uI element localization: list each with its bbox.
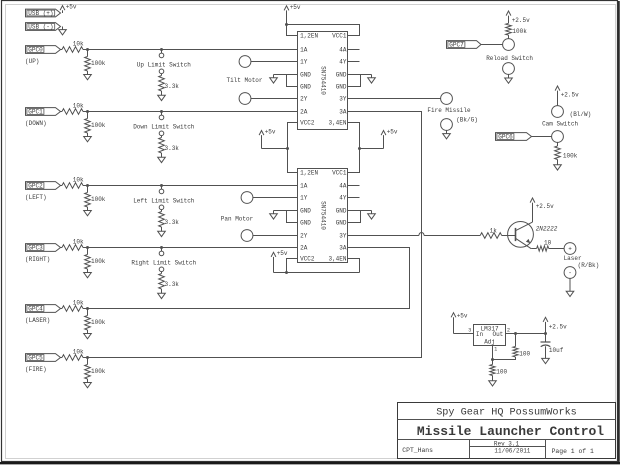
svg-text:VCC1: VCC1 [332, 169, 347, 176]
svg-text:+2.5v: +2.5v [549, 324, 567, 331]
wire U2 VCC2 to bottom rail [287, 259, 298, 273]
ground below Down Limit Switch [161, 153, 163, 157]
svg-text:+2.5v: +2.5v [561, 92, 579, 99]
svg-text:+5v: +5v [290, 4, 301, 11]
svg-text:100k: 100k [563, 153, 578, 160]
svg-text:Cam Switch: Cam Switch [542, 120, 578, 127]
svg-text:Left Limit Switch: Left Limit Switch [133, 197, 195, 204]
svg-text:2: 2 [507, 328, 510, 334]
ground below Up Limit Switch [161, 91, 163, 95]
svg-text:GPC6: GPC6 [498, 134, 513, 141]
svg-text:(LASER): (LASER) [25, 317, 50, 324]
node GPC3 junction [86, 246, 89, 249]
wire Tilt Motor pin2 to U1 2Y [251, 98, 298, 100]
wire net GPC1/DOWN to U1 pin 2A [88, 111, 298, 113]
stub U2 pin 4A [348, 185, 360, 187]
resistor 100k pulldown on GPC2 [87, 186, 89, 193]
wire U2 right GND bracket [348, 211, 361, 223]
node junction at Left Limit Switch [160, 184, 163, 187]
svg-text:100k: 100k [91, 196, 106, 203]
connector Fire Missile pin 1 [441, 93, 453, 105]
svg-text:VCC2: VCC2 [300, 119, 315, 126]
wire GPC1 resistor to junction [83, 111, 88, 113]
svg-text:2A: 2A [300, 108, 308, 115]
svg-text:3Y: 3Y [339, 232, 347, 239]
wire U2 left GND bracket [274, 210, 298, 212]
wire net GPC2/LEFT to U2 pin 1A [88, 185, 298, 187]
connector Reload Switch pin 2 [503, 63, 515, 75]
stub U2 pin 4Y [348, 197, 360, 199]
svg-text:(DOWN): (DOWN) [25, 120, 47, 127]
svg-text:+: + [568, 246, 572, 253]
wire GPC4 to series resistor [61, 308, 63, 310]
node +5v top rail junction [285, 23, 288, 26]
ground at U2 right GND [371, 211, 373, 214]
svg-text:3Y: 3Y [339, 95, 347, 102]
svg-text:Out: Out [492, 331, 503, 338]
wire Q1 emitter to 10 ohm resistor [531, 248, 536, 250]
connector Right Limit Switch pin 1 [161, 248, 163, 252]
ground below Left Limit Switch [161, 227, 163, 231]
svg-text:Tilt Motor: Tilt Motor [226, 77, 262, 84]
node GPC2 junction [86, 184, 89, 187]
wire GPC2 resistor to junction [83, 185, 88, 187]
connector Tilt Motor pin 1 [239, 56, 251, 68]
svg-text:GPC5: GPC5 [28, 355, 43, 362]
svg-text:3,4EN: 3,4EN [328, 255, 346, 262]
svg-text:4A: 4A [339, 46, 347, 53]
svg-text:GND: GND [336, 71, 347, 78]
ground below Adj resistor [492, 376, 494, 381]
svg-text:Rev 3.1: Rev 3.1 [494, 440, 520, 447]
ground below Fire Missile [446, 130, 448, 133]
resistor 10k on GPC2 [62, 183, 83, 189]
node mid-left rail junction [286, 147, 289, 150]
connector Right Limit Switch pin 2 [159, 267, 164, 272]
svg-text:+2.5v: +2.5v [512, 17, 530, 24]
resistor 100 lower [490, 365, 495, 376]
connector Left Limit Switch pin 2 [159, 205, 164, 210]
svg-text:1A: 1A [300, 182, 308, 189]
power +5v at USB (+) [62, 7, 64, 13]
connector GPC1 (DOWN) [26, 108, 61, 116]
connector Laser pin 2 (-) [564, 267, 576, 279]
connector GPC0 (UP) [26, 46, 61, 54]
resistor 100 feedback upper [515, 334, 517, 347]
wire U1 right GND bracket [348, 75, 361, 87]
power +2.5v at Cam Switch [557, 87, 559, 106]
wire net GPC5/FIRE to U1 pin 3A [88, 112, 422, 358]
svg-text:GND: GND [300, 83, 311, 90]
connector GPC6 [496, 133, 532, 141]
wire Tilt Motor pin1 to U1 1Y [251, 61, 298, 63]
node GPC5 junction [86, 356, 89, 359]
node bottom rail junction [285, 271, 288, 274]
svg-text:+5v: +5v [457, 313, 468, 320]
wire GPC4 resistor to junction [83, 308, 88, 310]
connector Pan Motor pin 2 [241, 230, 253, 242]
resistor 100k pulldown on GPC0 [87, 50, 89, 57]
svg-text:100k: 100k [91, 258, 106, 265]
connector Up Limit Switch pin 1 [161, 50, 163, 54]
svg-text:GND: GND [336, 83, 347, 90]
wire +5v to U3 In [454, 333, 474, 335]
svg-text:GPC3: GPC3 [28, 245, 43, 252]
power +2.5v at Reload Switch [508, 12, 510, 23]
resistor 3.3k at Right Limit Switch [161, 272, 163, 274]
wire U1 VCC2 / U2 1,2EN to mid-left rail [288, 123, 298, 173]
node junction at Up Limit Switch [160, 48, 163, 51]
svg-text:GND: GND [336, 219, 347, 226]
svg-text:1Y: 1Y [300, 194, 308, 201]
svg-text:2A: 2A [300, 244, 308, 251]
svg-text:1,2EN: 1,2EN [300, 169, 318, 176]
svg-text:VCC2: VCC2 [300, 255, 315, 262]
svg-text:+2.5v: +2.5v [536, 203, 554, 210]
ground at U1 left GND [273, 75, 275, 78]
transistor Q1 2N2222 [508, 222, 534, 248]
power +2.5v at Q1 collector [532, 199, 534, 222]
resistor 100k pulldown on GPC5 [87, 358, 89, 365]
svg-text:3.3k: 3.3k [165, 145, 180, 152]
resistor 100k pulldown at Cam Switch [557, 142, 559, 146]
power +5v mid-left rail [261, 132, 263, 149]
ground at USB (-) [62, 27, 64, 30]
connector GPC5 (FIRE) [26, 354, 61, 362]
svg-text:4Y: 4Y [339, 58, 347, 65]
wire U1 left GND bracket [274, 74, 298, 76]
svg-text:(LEFT): (LEFT) [25, 194, 47, 201]
svg-text:100k: 100k [91, 60, 106, 67]
wire 10 ohm to Laser pin 1 [549, 248, 564, 250]
ground below Right Limit Switch [161, 289, 163, 293]
power +5v at U3 input [453, 314, 455, 334]
svg-text:3.3k: 3.3k [165, 219, 180, 226]
ground below Cam Switch [557, 160, 559, 165]
node junction at Right Limit Switch [160, 246, 163, 249]
resistor 10k on GPC4 [62, 306, 83, 312]
wire 1k to Q1 base [502, 235, 516, 237]
svg-text:VCC1: VCC1 [332, 32, 347, 39]
svg-text:10k: 10k [73, 238, 84, 245]
svg-text:GPC1: GPC1 [28, 109, 43, 116]
svg-text:10k: 10k [73, 40, 84, 47]
resistor 10k on GPC5 [62, 355, 83, 361]
svg-text:+5v: +5v [66, 4, 77, 11]
wire net GPC3/RIGHT to U2 pin 2A [88, 247, 298, 249]
svg-text:-: - [568, 270, 572, 277]
wire GPC0 resistor to junction [83, 49, 88, 51]
power +5v above U1 [286, 7, 288, 25]
node junction at Down Limit Switch [160, 110, 163, 113]
power +2.5v at U3 output [545, 318, 547, 333]
svg-text:100k: 100k [91, 368, 106, 375]
connector Reload Switch pin 1 [503, 39, 515, 51]
ground below GPC4 pulldown [87, 330, 89, 334]
resistor 1k base resistor [480, 233, 502, 239]
svg-text:(Bk/G): (Bk/G) [456, 117, 478, 124]
svg-text:Page 1 of 1: Page 1 of 1 [552, 448, 594, 455]
wire GPC2 to series resistor [61, 185, 63, 187]
svg-text:1A: 1A [300, 46, 308, 53]
node mid-right rail junction [358, 147, 361, 150]
connector Down Limit Switch pin 1 [161, 112, 163, 116]
resistor 100k pulldown on GPC1 [87, 112, 89, 119]
ground below capacitor [545, 357, 547, 359]
svg-text:4Y: 4Y [339, 194, 347, 201]
svg-text:GND: GND [300, 207, 311, 214]
ground below GPC2 pulldown [87, 207, 89, 211]
capacitor 10uf [545, 334, 547, 343]
svg-text:10k: 10k [73, 102, 84, 109]
wire U3 Out to +2.5v node [506, 333, 546, 335]
svg-text:3.3k: 3.3k [165, 83, 180, 90]
svg-text:4A: 4A [339, 182, 347, 189]
wire U1 3,4EN / U2 VCC1 to mid-right rail [348, 123, 360, 173]
resistor 10k on GPC1 [62, 109, 83, 115]
wire GPC3 to series resistor [61, 247, 63, 249]
svg-text:100k: 100k [512, 28, 527, 35]
svg-text:Missile Launcher Control: Missile Launcher Control [417, 424, 604, 439]
resistor 100k pulldown on GPC4 [87, 309, 89, 316]
svg-text:Spy Gear HQ PossumWorks: Spy Gear HQ PossumWorks [436, 406, 577, 418]
ground below GPC0 pulldown [87, 71, 89, 75]
svg-text:Reload Switch: Reload Switch [486, 55, 533, 62]
svg-text:3.3k: 3.3k [165, 281, 180, 288]
node GPC1 junction [86, 110, 89, 113]
node GPC0 junction [86, 48, 89, 51]
stub U1 pin 4Y [348, 61, 360, 63]
svg-text:GPC7: GPC7 [449, 42, 464, 49]
wire bottom +5v rail [274, 272, 360, 274]
wire net GPC4/LASER to U2 pin 3A [88, 248, 410, 309]
svg-text:2Y: 2Y [300, 232, 308, 239]
svg-text:1Y: 1Y [300, 58, 308, 65]
svg-text:10k: 10k [73, 348, 84, 355]
connector USB (+) [26, 9, 61, 17]
ground at U1 right GND [371, 75, 373, 78]
wire mid-left +5v rail [262, 148, 288, 150]
wire Pan Motor pin1 to U2 1Y [253, 197, 298, 199]
svg-text:GPC4: GPC4 [28, 306, 43, 313]
node Adj junction [491, 358, 494, 361]
resistor 100k pulldown on GPC3 [87, 248, 89, 255]
power +5v bottom rail [273, 253, 275, 272]
resistor 3.3k at Up Limit Switch [161, 74, 163, 76]
connector Pan Motor pin 1 [241, 192, 253, 204]
svg-text:1k: 1k [490, 227, 498, 234]
resistor 10 ohm [537, 246, 549, 251]
svg-text:Laser: Laser [564, 255, 582, 262]
svg-text:(FIRE): (FIRE) [25, 366, 47, 373]
ground below GPC1 pulldown [87, 133, 89, 137]
connector USB (-) [26, 23, 61, 31]
connector Tilt Motor pin 2 [239, 93, 251, 105]
svg-text:CPT_Hans: CPT_Hans [402, 447, 433, 454]
connector GPC2 (LEFT) [26, 182, 61, 190]
wire GPC5 to series resistor [61, 357, 63, 359]
svg-text:+5v: +5v [265, 128, 276, 135]
node Out junction at capacitor [544, 332, 547, 335]
svg-text:GPC0: GPC0 [28, 47, 43, 54]
connector Laser pin 1 (+) [564, 243, 576, 255]
wire GPC0 to series resistor [61, 49, 63, 51]
wire U1 3Y to Fire Missile [348, 98, 441, 100]
svg-text:(Bl/W): (Bl/W) [570, 111, 592, 118]
svg-text:(RIGHT): (RIGHT) [25, 256, 50, 263]
wire GPC7 to Reload Switch pin 1 [481, 44, 503, 46]
svg-text:GND: GND [300, 71, 311, 78]
svg-text:+5v: +5v [277, 250, 288, 257]
svg-text:Fire Missile: Fire Missile [427, 107, 471, 114]
svg-text:10uf: 10uf [549, 347, 564, 354]
svg-text:Pan Motor: Pan Motor [221, 216, 254, 223]
svg-text:Down Limit Switch: Down Limit Switch [133, 123, 195, 130]
power +5v mid-right rail [383, 132, 385, 149]
svg-text:Adj: Adj [484, 338, 495, 345]
wire Pan Motor pin2 to U2 2Y [253, 235, 298, 237]
regulator U3 LM317 body [474, 325, 506, 346]
node Out junction at feedback resistor [514, 332, 517, 335]
svg-text:11/06/2011: 11/06/2011 [494, 447, 530, 454]
svg-text:10k: 10k [73, 299, 84, 306]
svg-text:SN754410: SN754410 [320, 201, 327, 230]
svg-text:(UP): (UP) [25, 58, 39, 65]
svg-text:100k: 100k [91, 122, 106, 129]
stub U1 pin 4A [348, 49, 360, 51]
wire feedback resistor to Adj node [493, 357, 516, 360]
wire GPC5 resistor to junction [83, 357, 88, 359]
wire GPC1 to series resistor [61, 111, 63, 113]
motor driver U2 SN754410 body [298, 169, 348, 263]
connector Left Limit Switch pin 1 [161, 186, 163, 190]
svg-text:SN754410: SN754410 [320, 66, 327, 95]
resistor 3.3k at Down Limit Switch [161, 136, 163, 138]
wire U2 3,4EN to bottom rail [348, 259, 360, 273]
connector GPC4 (LASER) [26, 305, 61, 313]
connector Cam Switch pin 1 (Bl/W) [552, 106, 564, 118]
connector GPC3 (RIGHT) [26, 244, 61, 252]
resistor 100k pullup at Reload Switch [508, 35, 510, 39]
wire mid-right +5v rail [360, 148, 384, 150]
svg-text:2Y: 2Y [300, 95, 308, 102]
svg-text:3: 3 [468, 328, 471, 334]
svg-text:2N2222: 2N2222 [536, 225, 558, 232]
ground below GPC5 pulldown [87, 379, 89, 383]
title block frame [398, 403, 616, 459]
wire U2 3Y to base resistor with hop over FIRE net [348, 235, 419, 237]
svg-text:GND: GND [336, 207, 347, 214]
svg-text:Up Limit Switch: Up Limit Switch [137, 61, 191, 68]
wire net GPC0/UP to U1 pin 1A [88, 49, 298, 51]
ground below GPC3 pulldown [87, 269, 89, 273]
resistor 10k on GPC3 [62, 245, 83, 251]
svg-text:3A: 3A [339, 244, 347, 251]
ground below Reload Switch [508, 74, 510, 78]
svg-text:(R/Bk): (R/Bk) [578, 262, 600, 269]
svg-text:10: 10 [544, 240, 552, 247]
svg-text:3,4EN: 3,4EN [328, 119, 346, 126]
connector Up Limit Switch pin 2 [159, 69, 164, 74]
wire capacitor to ground [545, 346, 547, 358]
svg-text:1: 1 [494, 347, 497, 353]
node GPC4 junction [86, 307, 89, 310]
svg-text:100: 100 [496, 369, 507, 376]
wire GPC3 resistor to junction [83, 247, 88, 249]
ground below Laser [569, 278, 571, 291]
connector Fire Missile pin 2 [441, 119, 453, 131]
motor driver U1 SN754410 body [298, 32, 348, 130]
resistor 3.3k at Left Limit Switch [161, 210, 163, 212]
connector Down Limit Switch pin 2 [159, 131, 164, 136]
svg-text:+5v: +5v [387, 128, 398, 135]
connector Cam Switch pin 2 [552, 131, 564, 143]
svg-text:GPC2: GPC2 [28, 183, 43, 190]
wire U3 Adj down [492, 346, 494, 365]
ground at U2 left GND [273, 211, 275, 214]
svg-text:USB (-): USB (-) [28, 24, 53, 31]
svg-text:100k: 100k [91, 319, 106, 326]
wire +5v top rail to U1 1,2EN [287, 25, 298, 36]
svg-text:10k: 10k [73, 176, 84, 183]
svg-text:3A: 3A [339, 108, 347, 115]
svg-text:Right Limit Switch: Right Limit Switch [131, 259, 196, 266]
connector GPC7 [447, 41, 482, 49]
svg-text:1,2EN: 1,2EN [300, 32, 318, 39]
wire GPC6 to Cam Switch pin 2 [532, 136, 552, 138]
svg-text:GND: GND [300, 219, 311, 226]
svg-text:In: In [476, 331, 484, 338]
wire +5v top rail to U1 VCC1 [287, 25, 360, 36]
svg-text:USB (+): USB (+) [28, 10, 53, 17]
svg-text:100: 100 [519, 350, 530, 357]
resistor 10k on GPC0 [62, 47, 83, 53]
